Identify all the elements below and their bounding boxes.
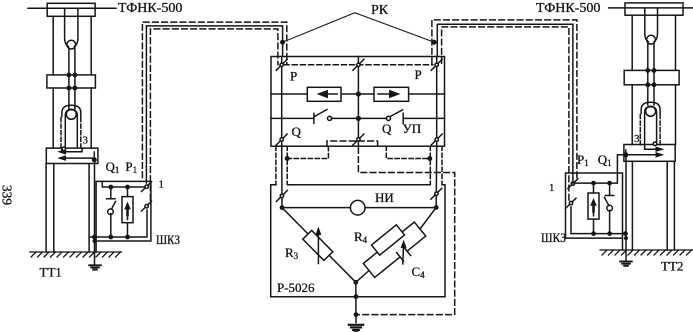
node bridge bottom [353,280,358,285]
arrester left box [122,197,133,223]
svg-text:ШКЗ: ШКЗ [541,230,566,245]
wire ШКЗ right top bus [572,155,624,183]
disconnect link top-center [353,59,364,70]
wire center circuit vertical [357,57,359,147]
arrester right box [588,193,599,219]
TT1 hairpin joint circle [67,40,76,49]
node screen stub right [427,156,432,161]
wire TT1 secondary screen dashed [61,118,81,150]
wire РК pointer lines [283,13,435,43]
disconnect link bridge-left [276,190,287,201]
screen bus dashed top [284,64,433,66]
node dots TT2 flange [645,68,656,87]
TT1 primary hairpin upper [65,9,78,47]
node TT2 terminal [623,152,628,157]
TT2 hairpin joint circle [647,35,656,44]
parallel branch R4 [363,222,420,271]
TT2 primary conductor circle [646,106,656,116]
TT2 porcelain column upper [632,15,675,70]
TT1 core dome arc [62,105,81,116]
TT2 terminal box [624,145,675,162]
svg-text:ШКЗ: ШКЗ [156,232,180,247]
svg-text:Р: Р [290,69,297,84]
switch hinge circle [108,209,114,215]
terminal bead TT2 [653,142,657,146]
node cable2 РК tap [432,40,437,45]
TT1 head cap [47,3,95,16]
wire left circuit vertical [281,57,283,147]
wire TT2 primary narrow pair lower [648,85,654,105]
relay box left [307,87,341,101]
wire cable4 core right [435,146,438,207]
svg-text:УП: УП [403,121,422,136]
svg-text:1: 1 [159,179,165,191]
arrow TT1 lead 2 [57,155,94,161]
node dots TT1 flange [67,73,78,91]
control box РК outline [271,57,445,147]
switch hinge circle right [607,205,613,211]
TT1 primary conductor circle [66,109,76,119]
disconnect link 2 right [566,198,576,208]
svg-text:ТТ2: ТТ2 [661,259,683,274]
svg-text:3: 3 [634,133,640,145]
node middle bus center [356,91,361,96]
cabinet box ШКЗ right [566,173,623,250]
wire middle bus [271,93,445,95]
node bridge corner right [434,205,439,210]
earth screen path dashed center [356,148,455,315]
arrester left wires [127,187,129,237]
wire primary bus right [609,7,693,9]
disconnect link 1 right [568,179,578,189]
svg-text:339: 339 [0,185,15,206]
TT1 flange [47,75,96,88]
resistor R4 [371,225,404,255]
wire TT1 earth [94,160,96,265]
disconnect link top-right [431,59,442,70]
TT2 pedestal [632,161,674,250]
node bridge corner left [280,205,285,210]
node screen stub left [285,156,290,161]
contact Q left hinge [328,116,332,120]
TT1 porcelain column lower [53,88,91,148]
arrester right arrow [590,198,597,216]
disconnect link bottom-center [353,134,364,145]
svg-text:Р-5026: Р-5026 [277,280,315,295]
TT2 flange [624,70,679,84]
node earth screen [354,312,359,317]
wire TT2 lead step [626,145,645,155]
disconnect link bridge-right [431,188,442,199]
wire TT1 primary narrow pair lower [69,88,75,110]
earth symbol TT2 [620,262,632,266]
capacitor C4 plates [397,247,411,261]
earth symbol main [349,325,363,332]
relay box right [374,87,409,101]
svg-text:1: 1 [549,182,555,194]
arrow TT2 lead 1 [645,146,665,152]
wire НИ line [282,207,436,209]
cable2 screen dashed inner [442,27,569,200]
svg-text:ТТ1: ТТ1 [40,265,62,280]
node dots ШКЗ left [92,185,130,243]
node cable1 РК tap [280,40,285,45]
wire TT2 earth [625,155,627,261]
null indicator НИ [350,200,365,215]
node dots ШКЗ right [591,181,628,240]
contact Q right hinge [386,116,390,120]
TT2 porcelain column lower [632,85,675,145]
node TT1 terminal [92,157,97,162]
cable1 screen dashed outer [142,22,286,177]
svg-text:ТФНК-500: ТФНК-500 [536,1,600,16]
disconnect link top-left [276,59,287,70]
wire cable1 core [146,26,282,183]
TT1 porcelain column upper [53,16,91,75]
TT1 pedestal [46,164,89,253]
TT2 primary hairpin upper [645,8,658,41]
wire cable3 core left [281,146,283,207]
screen stub dashed right [386,146,430,158]
switch Q1 left contact [107,187,116,237]
TT2 core dome arc [641,102,660,113]
arrester right wires [593,183,595,234]
wire cable2 core [437,24,573,183]
parallel branch C4 [369,229,426,278]
ground hatch left [30,252,122,257]
bridge box Р-5026 outline [271,185,445,297]
screen stub dashed left [287,146,328,158]
arrester left arrow [124,202,131,220]
contact Q right [358,110,444,124]
wire bridge arm right upper [356,207,436,282]
wire bridge arm left [282,208,356,283]
svg-text:Р: Р [415,67,422,82]
arrow relay right [378,90,401,98]
svg-text:Q: Q [292,124,302,139]
arrow TT2 lead 2 [626,152,665,158]
TT1 secondary hairpin loop [65,110,77,148]
wire bridge earth [355,282,357,322]
svg-text:НИ: НИ [375,190,394,205]
wire TT2 secondary screen dashed [640,115,660,146]
svg-text:3: 3 [83,135,89,147]
resistor R3 [303,230,333,260]
switch Q1 right contact [604,183,613,234]
terminal bead TT1 [62,147,66,151]
wire TT1 lead step [62,148,95,158]
disconnect link 2 left [142,201,152,211]
cable4 screens dashed [430,146,442,184]
svg-text:ТФНК-500: ТФНК-500 [118,1,182,16]
disconnect link 1 left [142,182,152,192]
TT2 secondary hairpin loop [645,107,657,145]
TT2 head cap [625,3,683,15]
arrow R3 variable [315,227,321,264]
wire ШКЗ left bottom bus [90,210,147,237]
disconnect link bottom-left [276,134,287,145]
wire TT2 primary narrow pair upper [648,44,654,85]
wire primary bus left [28,7,116,9]
node box bottom [354,294,359,299]
screen bridge dashed bottom [327,141,378,146]
cable2 screen dashed outer [432,20,577,178]
disconnect link bottom-right [431,134,442,145]
cable3 screens dashed [276,146,287,184]
wire right circuit vertical [436,57,438,147]
wire ШКЗ right bottom bus [571,207,626,234]
earth symbol TT1 [89,265,101,269]
wire ШКЗ left top bus [102,181,146,187]
node contact bus center [356,116,361,121]
TT1 terminal box [46,148,98,163]
cable1 screen dashed inner [150,29,278,200]
svg-text:РК: РК [371,3,389,18]
arrow TT1 lead 1 [57,149,82,155]
svg-text:Q: Q [382,121,392,136]
ground hatch right [600,250,693,255]
arrow C4 variable [401,240,407,264]
cabinet box ШКЗ left [96,181,151,252]
arrow relay left [317,90,338,98]
wire TT1 primary narrow pair upper [69,49,75,88]
contact Q left [271,110,358,124]
